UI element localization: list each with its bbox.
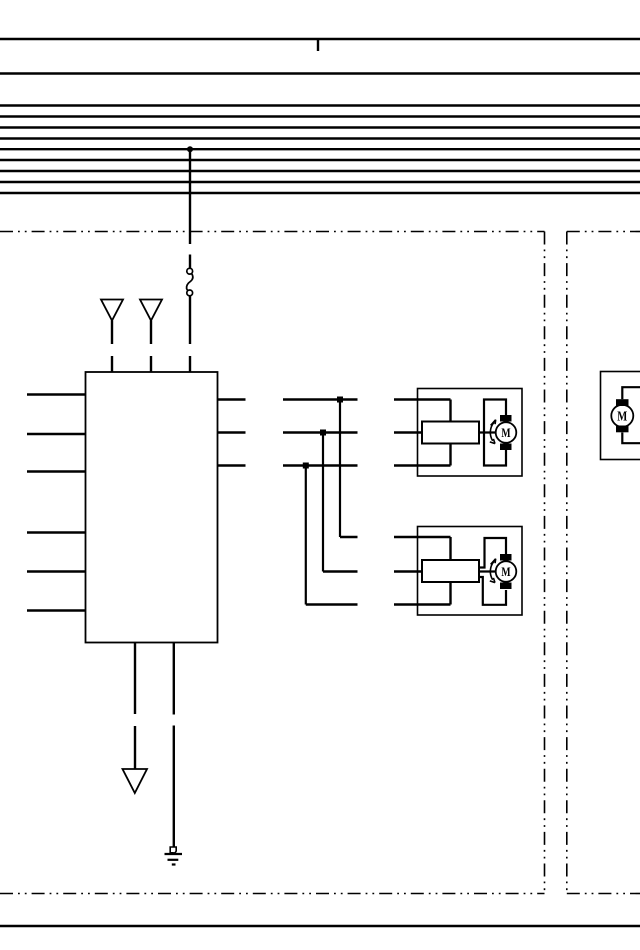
wire net A vertical drop	[339, 400, 341, 538]
dashed border box 1 bottom	[0, 893, 545, 895]
wire net B horizontal	[283, 431, 358, 433]
motor M2 rotation arrow	[490, 561, 494, 579]
U1 left pin 3	[27, 470, 86, 472]
motor M2 top terminal	[500, 554, 512, 561]
wire stub into control unit (antenna feed)	[189, 356, 191, 372]
motor M1 rotation arrow	[490, 422, 494, 440]
svg-text:M: M	[501, 564, 510, 579]
junction node B	[320, 430, 326, 436]
antenna 1 lead	[111, 321, 113, 345]
U1 left pin 4	[27, 531, 86, 533]
antenna 1 stub into control unit	[111, 356, 113, 372]
wire bus line 11	[0, 192, 640, 194]
wire net C vertical drop	[305, 466, 307, 605]
dashed border box 2 top	[567, 231, 640, 233]
wire bus line 8	[0, 159, 640, 161]
motor M3 top terminal	[616, 399, 629, 406]
junction node A	[337, 397, 343, 403]
U1 left pin 5	[27, 570, 86, 572]
wire net C horizontal	[283, 464, 358, 466]
wire net A lower horizontal	[340, 536, 358, 538]
wire bus line 3	[0, 104, 640, 106]
svg-text:M: M	[501, 425, 510, 440]
bottom frame line	[0, 925, 640, 928]
U1 left pin 6	[27, 609, 86, 611]
U1 bottom pin 1 wire lower segment	[134, 726, 136, 769]
svg-text:M: M	[617, 410, 627, 425]
wire bus line 9	[0, 170, 640, 172]
U1 right pin 1	[218, 398, 246, 400]
node tick on bus line 1	[317, 39, 319, 51]
motor M1 body	[496, 422, 517, 443]
U1 left pin 1	[27, 393, 86, 395]
wire bus line 2	[0, 72, 640, 74]
motor M1 supply loop	[484, 400, 506, 466]
ground bar 2	[168, 859, 179, 861]
A1 pin 2 wire	[394, 431, 422, 433]
wire bus line 5	[0, 126, 640, 128]
U1 bottom pin 1 wire	[134, 643, 136, 715]
junction node C	[303, 463, 309, 469]
U1 right pin 3	[218, 464, 246, 466]
motor module A3 outer box (right page)	[601, 372, 640, 460]
relay block K1	[422, 422, 479, 444]
wire bus line 10	[0, 181, 640, 183]
U1 bottom pin 2 wire	[173, 643, 175, 715]
K1 output wire to motor	[479, 431, 496, 433]
motor M1 top terminal	[500, 415, 512, 422]
wire bus line 4	[0, 115, 640, 117]
dashed border box 2 bottom	[567, 893, 640, 895]
wire net A horizontal	[283, 398, 358, 400]
M3 top feed wire	[622, 387, 640, 399]
U1 bottom pin 2 wire lower segment	[173, 726, 175, 848]
off-page arrow (down)	[123, 769, 148, 793]
A2 pin 3 rise to relay	[449, 582, 451, 605]
A1 pin 1 wire	[394, 398, 451, 400]
relay block K2	[422, 560, 479, 582]
A1 pin 3 rise to relay	[449, 444, 451, 466]
wire segment above connector	[189, 255, 191, 269]
wire bus line 6	[0, 137, 640, 139]
ground terminal eyelet	[170, 847, 176, 853]
A2 pin 1 wire	[394, 536, 451, 538]
wire bus line 1 (top frame line)	[0, 38, 640, 40]
wire net B vertical drop	[322, 433, 324, 572]
U1 right pin 2	[218, 431, 246, 433]
ground bar 1	[165, 853, 183, 855]
wire from bus junction down	[189, 149, 191, 244]
wire net C lower horizontal	[306, 603, 358, 605]
K2 upper contact wire to motor top terminal	[479, 538, 506, 568]
A2 pin 2 wire	[394, 570, 422, 572]
junction dot on bus line 7	[187, 146, 193, 152]
antenna 2 lead	[150, 321, 152, 345]
A1 pin 3 wire	[394, 464, 451, 466]
A1 pin 1 drop to relay	[449, 400, 451, 422]
M3 bottom feed wire	[622, 433, 640, 444]
K2 output wire to motor	[479, 570, 496, 572]
motor M3 bottom terminal	[616, 426, 629, 433]
motor M1 bottom terminal	[500, 444, 512, 451]
motor M2 bottom terminal	[500, 583, 512, 590]
wire bus line 7	[0, 148, 640, 150]
antenna 2 stub into control unit	[150, 356, 152, 372]
A2 pin 3 wire	[394, 603, 451, 605]
ground bar 3	[172, 863, 176, 865]
wire from connector down	[189, 296, 191, 344]
dashed border box 2 left	[566, 232, 568, 894]
dashed border box 1 right	[544, 232, 546, 894]
motor M2 body	[496, 561, 517, 582]
inline connector S-hook	[187, 274, 193, 291]
U1 left pin 2	[27, 433, 86, 435]
antenna symbol 1	[101, 300, 123, 321]
motor M3 body	[611, 405, 633, 427]
antenna symbol 2	[140, 300, 162, 321]
inline connector lower terminal	[187, 290, 193, 296]
A2 pin 1 drop to relay	[449, 537, 451, 560]
motor module A1 outer box	[418, 389, 523, 477]
motor module A2 outer box	[418, 527, 523, 616]
K2 lower contact wire to motor bottom terminal	[479, 577, 506, 605]
dashed border box 1 top	[0, 231, 545, 233]
control unit U1	[86, 372, 218, 643]
inline connector upper terminal	[187, 268, 193, 274]
wire net B lower horizontal	[323, 570, 358, 572]
